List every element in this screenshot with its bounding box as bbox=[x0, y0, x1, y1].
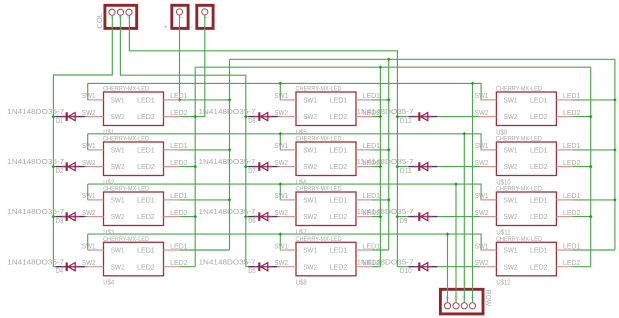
diode D10 (1N4148DO35-7) bbox=[357, 257, 438, 275]
svg-text:1N4148DO35-7: 1N4148DO35-7 bbox=[199, 107, 256, 116]
diode D5 (1N4148DO35-7) bbox=[199, 257, 278, 275]
svg-text:SW1: SW1 bbox=[111, 146, 125, 155]
svg-text:CHERRY-MX-LED: CHERRY-MX-LED bbox=[103, 137, 150, 143]
svg-text:SW2: SW2 bbox=[475, 210, 489, 217]
diode D11 (1N4148DO35-7) bbox=[357, 157, 438, 175]
svg-text:1: 1 bbox=[108, 16, 114, 19]
svg-text:SW2: SW2 bbox=[303, 212, 317, 221]
diode D9 (1N4148DO35-7) bbox=[357, 207, 438, 225]
wire net COL2 : COL pin2 to D8-D5 cathodes bbox=[120, 15, 280, 266]
switch module U$4 (CHERRY-MX-LED) bbox=[82, 237, 188, 287]
diode D8 (1N4148DO35-7) bbox=[199, 107, 278, 125]
svg-text:SW2: SW2 bbox=[111, 212, 125, 221]
svg-text:LED1: LED1 bbox=[330, 196, 348, 205]
svg-text:LED1: LED1 bbox=[563, 243, 581, 250]
svg-text:SW1: SW1 bbox=[274, 243, 288, 250]
svg-text:SW2: SW2 bbox=[303, 112, 317, 121]
svg-text:U$2: U$2 bbox=[103, 177, 114, 186]
svg-text:LED1: LED1 bbox=[363, 193, 381, 200]
svg-text:LED2: LED2 bbox=[530, 262, 548, 271]
svg-text:U$9: U$9 bbox=[496, 127, 507, 136]
svg-text:SW1: SW1 bbox=[475, 143, 489, 150]
svg-text:SW2: SW2 bbox=[111, 262, 125, 271]
wire net COL3 : COL pin3 to D12,D11,D9,D10 cathodes bbox=[129, 15, 480, 266]
svg-text:CHERRY-MX-LED: CHERRY-MX-LED bbox=[103, 87, 150, 93]
svg-text:SW1: SW1 bbox=[475, 193, 489, 200]
switch module U$5 (CHERRY-MX-LED) bbox=[274, 87, 380, 137]
connector COL bbox=[95, 5, 137, 28]
svg-text:1: 1 bbox=[469, 296, 475, 299]
svg-text:D4: D4 bbox=[56, 266, 64, 275]
svg-text:U$4: U$4 bbox=[103, 278, 114, 287]
svg-text:SW1: SW1 bbox=[82, 193, 96, 200]
svg-text:LED1: LED1 bbox=[363, 243, 381, 250]
svg-text:D9: D9 bbox=[400, 216, 408, 225]
connector - (LED cathode) bbox=[191, 5, 214, 31]
svg-text:SW1: SW1 bbox=[274, 93, 288, 100]
svg-text:SW2: SW2 bbox=[475, 110, 489, 117]
svg-text:LED2: LED2 bbox=[530, 212, 548, 221]
svg-text:CHERRY-MX-LED: CHERRY-MX-LED bbox=[496, 187, 543, 193]
svg-text:D10: D10 bbox=[400, 266, 412, 275]
svg-text:SW2: SW2 bbox=[82, 160, 96, 167]
svg-text:SW1: SW1 bbox=[82, 243, 96, 250]
svg-text:SW1: SW1 bbox=[504, 246, 518, 255]
svg-text:D5: D5 bbox=[248, 266, 256, 275]
svg-text:LED1: LED1 bbox=[530, 96, 548, 105]
svg-text:D8: D8 bbox=[248, 116, 256, 125]
svg-text:LED2: LED2 bbox=[137, 162, 155, 171]
svg-text:CHERRY-MX-LED: CHERRY-MX-LED bbox=[103, 187, 150, 193]
svg-text:CHERRY-MX-LED: CHERRY-MX-LED bbox=[296, 87, 343, 93]
svg-text:SW2: SW2 bbox=[303, 262, 317, 271]
svg-text:U$8: U$8 bbox=[296, 278, 307, 287]
svg-text:LED1: LED1 bbox=[363, 93, 381, 100]
svg-text:1: 1 bbox=[203, 16, 209, 19]
svg-text:LED1: LED1 bbox=[170, 193, 188, 200]
svg-text:SW1: SW1 bbox=[504, 146, 518, 155]
wire net ROW1 : SW1 pins row 1 to ROW pin1 bbox=[88, 82, 481, 303]
svg-text:ROW: ROW bbox=[484, 290, 493, 307]
switch module U$11 (CHERRY-MX-LED) bbox=[475, 187, 581, 237]
svg-text:LED2: LED2 bbox=[563, 110, 581, 117]
svg-text:SW2: SW2 bbox=[475, 160, 489, 167]
svg-text:LED1: LED1 bbox=[330, 146, 348, 155]
svg-text:LED2: LED2 bbox=[563, 210, 581, 217]
svg-text:D7: D7 bbox=[248, 166, 256, 175]
svg-text:SW1: SW1 bbox=[111, 96, 125, 105]
connector ROW bbox=[440, 289, 493, 314]
svg-text:SW1: SW1 bbox=[303, 146, 317, 155]
svg-text:LED2: LED2 bbox=[330, 112, 348, 121]
svg-text:1N4148DO35-7: 1N4148DO35-7 bbox=[199, 257, 256, 266]
wire net LED+ : + connector to all LED1 pins bbox=[178, 15, 617, 250]
svg-text:SW1: SW1 bbox=[303, 96, 317, 105]
svg-text:LED1: LED1 bbox=[530, 246, 548, 255]
svg-text:SW1: SW1 bbox=[303, 246, 317, 255]
svg-text:U$7: U$7 bbox=[296, 227, 307, 236]
svg-text:SW1: SW1 bbox=[504, 96, 518, 105]
svg-text:SW1: SW1 bbox=[504, 196, 518, 205]
wire net COL1 : COL pin1 to D1-D4 cathodes bbox=[52, 15, 113, 266]
svg-text:+: + bbox=[163, 24, 167, 31]
svg-text:LED2: LED2 bbox=[563, 160, 581, 167]
diode D2 (1N4148DO35-7) bbox=[7, 157, 85, 175]
svg-text:LED1: LED1 bbox=[363, 143, 381, 150]
svg-text:1N4148DO35-7: 1N4148DO35-7 bbox=[199, 157, 256, 166]
svg-text:LED2: LED2 bbox=[170, 260, 188, 267]
svg-text:SW2: SW2 bbox=[111, 162, 125, 171]
svg-text:SW2: SW2 bbox=[303, 162, 317, 171]
svg-text:U$3: U$3 bbox=[103, 227, 114, 236]
svg-text:4: 4 bbox=[444, 296, 450, 299]
svg-text:LED1: LED1 bbox=[330, 246, 348, 255]
switch module U$10 (CHERRY-MX-LED) bbox=[475, 137, 581, 187]
svg-text:SW2: SW2 bbox=[82, 110, 96, 117]
svg-text:LED1: LED1 bbox=[137, 196, 155, 205]
switch module U$6 (CHERRY-MX-LED) bbox=[274, 137, 380, 187]
switch module U$7 (CHERRY-MX-LED) bbox=[274, 187, 380, 237]
diode D1 (1N4148DO35-7) bbox=[7, 107, 85, 125]
svg-text:LED2: LED2 bbox=[170, 110, 188, 117]
switch module U$12 (CHERRY-MX-LED) bbox=[475, 237, 581, 287]
svg-text:LED2: LED2 bbox=[137, 112, 155, 121]
svg-text:LED2: LED2 bbox=[137, 262, 155, 271]
diode D7 (1N4148DO35-7) bbox=[199, 157, 278, 175]
svg-text:U$5: U$5 bbox=[296, 127, 307, 136]
svg-text:U$10: U$10 bbox=[496, 177, 511, 186]
svg-text:LED1: LED1 bbox=[137, 146, 155, 155]
svg-text:LED2: LED2 bbox=[530, 162, 548, 171]
svg-text:3: 3 bbox=[452, 296, 458, 299]
svg-text:SW1: SW1 bbox=[274, 143, 288, 150]
svg-text:LED1: LED1 bbox=[137, 96, 155, 105]
svg-text:SW2: SW2 bbox=[274, 160, 288, 167]
svg-text:U$1: U$1 bbox=[103, 127, 114, 136]
svg-text:LED1: LED1 bbox=[170, 243, 188, 250]
svg-text:LED1: LED1 bbox=[563, 193, 581, 200]
svg-text:LED2: LED2 bbox=[170, 160, 188, 167]
svg-text:D6: D6 bbox=[248, 216, 256, 225]
diode D12 (1N4148DO35-7) bbox=[357, 107, 438, 125]
switch module U$9 (CHERRY-MX-LED) bbox=[475, 87, 581, 137]
svg-text:SW2: SW2 bbox=[504, 162, 518, 171]
svg-text:SW1: SW1 bbox=[82, 143, 96, 150]
svg-text:SW2: SW2 bbox=[274, 210, 288, 217]
svg-text:SW1: SW1 bbox=[111, 246, 125, 255]
svg-text:SW2: SW2 bbox=[111, 112, 125, 121]
svg-text:D3: D3 bbox=[56, 216, 64, 225]
svg-text:U$6: U$6 bbox=[296, 177, 307, 186]
svg-text:SW1: SW1 bbox=[475, 243, 489, 250]
svg-text:SW2: SW2 bbox=[82, 260, 96, 267]
svg-text:2: 2 bbox=[461, 296, 467, 299]
svg-text:1N4148DO35-7: 1N4148DO35-7 bbox=[199, 207, 256, 216]
svg-text:LED1: LED1 bbox=[563, 93, 581, 100]
svg-text:SW1: SW1 bbox=[303, 196, 317, 205]
wire net ROW4 : SW1 pins row 4 to ROW pin4 bbox=[88, 232, 481, 302]
wire net LED- : - connector to all LED2 pins bbox=[180, 15, 593, 266]
svg-text:U$11: U$11 bbox=[496, 227, 511, 236]
diode D4 (1N4148DO35-7) bbox=[7, 257, 85, 275]
svg-text:LED1: LED1 bbox=[137, 246, 155, 255]
svg-text:CHERRY-MX-LED: CHERRY-MX-LED bbox=[296, 237, 343, 243]
svg-text:SW1: SW1 bbox=[82, 93, 96, 100]
svg-text:LED2: LED2 bbox=[170, 210, 188, 217]
svg-text:CHERRY-MX-LED: CHERRY-MX-LED bbox=[496, 87, 543, 93]
svg-text:CHERRY-MX-LED: CHERRY-MX-LED bbox=[296, 137, 343, 143]
svg-text:SW1: SW1 bbox=[111, 196, 125, 205]
svg-text:1: 1 bbox=[178, 16, 184, 19]
diode D3 (1N4148DO35-7) bbox=[7, 207, 85, 225]
svg-text:SW2: SW2 bbox=[274, 260, 288, 267]
svg-text:CHERRY-MX-LED: CHERRY-MX-LED bbox=[496, 137, 543, 143]
svg-text:LED2: LED2 bbox=[330, 162, 348, 171]
svg-text:SW2: SW2 bbox=[82, 210, 96, 217]
svg-text:SW2: SW2 bbox=[274, 110, 288, 117]
svg-text:SW2: SW2 bbox=[504, 112, 518, 121]
svg-text:SW2: SW2 bbox=[475, 260, 489, 267]
svg-text:LED1: LED1 bbox=[563, 143, 581, 150]
switch module U$3 (CHERRY-MX-LED) bbox=[82, 187, 188, 237]
svg-text:CHERRY-MX-LED: CHERRY-MX-LED bbox=[103, 237, 150, 243]
svg-text:LED1: LED1 bbox=[530, 146, 548, 155]
svg-text:LED1: LED1 bbox=[170, 93, 188, 100]
wire net ROW3 : SW1 pins row 3 to ROW pin3 bbox=[88, 182, 481, 302]
svg-text:D11: D11 bbox=[400, 166, 412, 175]
svg-text:D1: D1 bbox=[56, 116, 64, 125]
svg-text:D2: D2 bbox=[56, 166, 64, 175]
switch module U$1 (CHERRY-MX-LED) bbox=[82, 87, 188, 137]
switch module U$8 (CHERRY-MX-LED) bbox=[274, 237, 380, 287]
wire net ROW2 : SW1 pins row 2 to ROW pin2 bbox=[88, 132, 481, 303]
diode D6 (1N4148DO35-7) bbox=[199, 207, 278, 225]
svg-text:U$12: U$12 bbox=[496, 278, 511, 287]
svg-text:LED2: LED2 bbox=[330, 262, 348, 271]
switch module U$2 (CHERRY-MX-LED) bbox=[82, 137, 188, 187]
svg-text:LED2: LED2 bbox=[330, 212, 348, 221]
svg-text:LED1: LED1 bbox=[170, 143, 188, 150]
svg-text:SW1: SW1 bbox=[274, 193, 288, 200]
svg-text:COL: COL bbox=[95, 13, 104, 29]
svg-text:SW1: SW1 bbox=[475, 93, 489, 100]
svg-text:LED2: LED2 bbox=[563, 260, 581, 267]
svg-text:LED1: LED1 bbox=[330, 96, 348, 105]
svg-text:CHERRY-MX-LED: CHERRY-MX-LED bbox=[496, 237, 543, 243]
svg-text:SW2: SW2 bbox=[504, 262, 518, 271]
svg-text:LED2: LED2 bbox=[530, 112, 548, 121]
svg-text:D12: D12 bbox=[400, 116, 412, 125]
svg-text:LED1: LED1 bbox=[530, 196, 548, 205]
connector + (LED anode) bbox=[163, 5, 188, 31]
svg-text:LED2: LED2 bbox=[137, 212, 155, 221]
svg-text:CHERRY-MX-LED: CHERRY-MX-LED bbox=[296, 187, 343, 193]
svg-text:SW2: SW2 bbox=[504, 212, 518, 221]
